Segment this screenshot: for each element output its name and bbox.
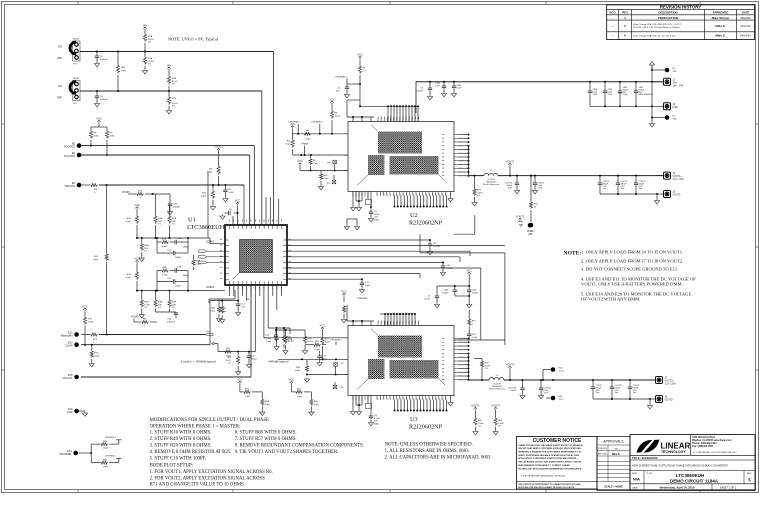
- power VCC R4a: [358, 56, 361, 60]
- resistor R3A: [155, 291, 157, 299]
- svg-text:PRODUCTION: PRODUCTION: [658, 16, 678, 20]
- capacitor C47: [248, 352, 250, 356]
- svg-text:Tant: Tant: [596, 391, 600, 394]
- svg-text:2. ONLY APPLY LOAD FROM J7 TO: 2. ONLY APPLY LOAD FROM J7 TO J8 ON VOUT…: [581, 259, 683, 264]
- wire j1 vertical: [651, 65, 653, 122]
- svg-text:400kHz typical: 400kHz typical: [268, 360, 288, 364]
- resistor R6x: [295, 390, 303, 393]
- svg-text:GND: GND: [673, 106, 679, 109]
- svg-text:1%: 1%: [172, 106, 175, 108]
- wire RUN1: [80, 51, 274, 53]
- svg-text:R7A: R7A: [148, 35, 153, 38]
- resistor R2B: [169, 204, 171, 215]
- svg-text:VOUT1: VOUT1: [471, 404, 480, 408]
- resistor R18: [283, 328, 285, 334]
- svg-text:VCC: VCC: [357, 53, 363, 57]
- terminal E13 CLKIN: [74, 342, 79, 347]
- svg-text:DRVENBL1: DRVENBL1: [311, 122, 323, 124]
- svg-text:1.5V / 20A: 1.5V / 20A: [673, 178, 685, 181]
- resistor R1A: [155, 194, 157, 215]
- svg-text:Fswitch = 500kHz typical: Fswitch = 500kHz typical: [180, 360, 216, 364]
- ground J5: [656, 194, 658, 199]
- resistor R3E: [169, 291, 171, 299]
- svg-text:R7E: R7E: [172, 78, 177, 80]
- svg-text:1000pF: 1000pF: [100, 59, 108, 61]
- capacitor COUT11: [540, 380, 542, 388]
- resistor R6: [217, 165, 220, 175]
- svg-text:TECHNOLOGY: TECHNOLOGY: [661, 450, 686, 454]
- svg-text:1%: 1%: [148, 64, 151, 66]
- resistor R5A: [141, 238, 143, 243]
- svg-text:LTC CONFIDENTIAL - FOR CUSTOME: LTC CONFIDENTIAL - FOR CUSTOMER USE ONLY: [692, 451, 737, 454]
- svg-text:—: —: [611, 35, 614, 38]
- svg-text:APPROVED: APPROVED: [713, 11, 729, 15]
- svg-text:1%: 1%: [498, 426, 501, 428]
- connector J7 VOUT2+: [656, 377, 663, 384]
- svg-text:COMP2: COMP2: [206, 287, 215, 289]
- resistor R55: [303, 335, 306, 344]
- svg-text:30.1K: 30.1K: [172, 81, 178, 83]
- capacitor CIN8: [589, 82, 591, 91]
- svg-text:30.1K: 30.1K: [148, 39, 154, 41]
- svg-text:1%: 1%: [485, 368, 488, 370]
- svg-text:PERFORMANCE OR RELIABILITY. C: PERFORMANCE OR RELIABILITY. CONTACT LINE…: [518, 464, 570, 467]
- resistor R27: [321, 336, 324, 345]
- resistor R56: [237, 352, 239, 355]
- wire U1 ISNS wires: [287, 239, 430, 241]
- svg-text:(Opt): (Opt): [295, 369, 300, 372]
- svg-text:APPROVALS: APPROVALS: [603, 440, 624, 444]
- svg-text:(Opt): (Opt): [103, 465, 108, 468]
- resistor R67: [468, 310, 470, 318]
- svg-text:0.25uF: 0.25uF: [446, 268, 453, 270]
- svg-text:PCB DES.: PCB DES.: [598, 448, 608, 450]
- wire E9 branch down: [106, 185, 108, 253]
- svg-text:4. REMOVE 0 OHM RESISTOR AT R2: 4. REMOVE 0 OHM RESISTOR AT R25.: [150, 450, 232, 455]
- svg-text:VOSP2: VOSP2: [131, 317, 139, 319]
- power VCC R8: [330, 101, 333, 105]
- svg-text:VERIFY PROPER AND RELIABLE OPE: VERIFY PROPER AND RELIABLE OPERATION IN …: [518, 454, 580, 457]
- power VCC comp2: [135, 260, 138, 264]
- svg-text:Value Change: R2A, R2B, R3E, R: Value Change: R2A, R2B, R3E, R28, R33, C…: [633, 23, 682, 26]
- svg-text:6.34K: 6.34K: [162, 274, 168, 276]
- svg-text:R7F: R7F: [172, 98, 177, 100]
- svg-text:1.00K: 1.00K: [498, 423, 504, 425]
- terminal E20 VO2-: [551, 396, 556, 401]
- svg-text:R2B: R2B: [172, 218, 177, 220]
- wire U1 bottom stubs: [229, 285, 231, 296]
- capacitor C18: [276, 328, 278, 338]
- capacitor CIN2: [443, 82, 445, 86]
- net VOUT2 lbl: [508, 366, 511, 370]
- svg-text:PGOOD1: PGOOD1: [64, 145, 76, 149]
- wire comp1 row: [137, 237, 210, 239]
- svg-text:100pF: 100pF: [175, 257, 182, 259]
- U3 bottom right ground: [450, 396, 452, 402]
- svg-text:LTC3860EUH: LTC3860EUH: [187, 224, 225, 231]
- svg-text:100K: 100K: [110, 135, 116, 137]
- svg-text:Tant: Tant: [603, 187, 607, 190]
- capacitor C6u3: [370, 396, 372, 417]
- power stage IC U3 R2J20602NP body: [348, 326, 454, 396]
- capacitor C3C: [157, 281, 173, 283]
- U2 pin labels: [377, 117, 380, 119]
- wire pgnd row: [210, 300, 238, 302]
- svg-text:C2A: C2A: [177, 237, 182, 240]
- svg-text:Mike S.: Mike S.: [715, 34, 726, 38]
- svg-text:2. ALL CAPACITORS ARE IN MICRO: 2. ALL CAPACITORS ARE IN MICROFARAD, 060…: [385, 455, 492, 460]
- capacitor C10r: [442, 262, 444, 266]
- resistor R64: [481, 368, 483, 371]
- capacitor C3o: [436, 286, 438, 296]
- svg-text:R5A: R5A: [144, 244, 149, 247]
- capacitor CIN3: [453, 82, 455, 86]
- svg-text:2. STUFF R49 WITH 0 OHMS.: 2. STUFF R49 WITH 0 OHMS.: [150, 437, 212, 442]
- wire PGOOD1: [81, 145, 254, 147]
- capacitor COUT2: [617, 176, 619, 183]
- svg-text:100pF: 100pF: [442, 292, 449, 294]
- resistor R7E: [167, 67, 170, 71]
- wire U2 top feed: [347, 116, 374, 118]
- U2 right pin dots: [468, 134, 470, 136]
- svg-text:VOUT1: VOUT1: [214, 145, 223, 149]
- wire TRKSS to U1: [243, 185, 245, 225]
- svg-text:20K: 20K: [158, 304, 162, 306]
- svg-text:1%: 1%: [478, 426, 481, 428]
- svg-text:VOS1-: VOS1-: [527, 231, 534, 233]
- svg-text:APPLICATION. COMPONENT SUBSTIT: APPLICATION. COMPONENT SUBSTITUTION AND …: [518, 457, 577, 460]
- capacitor C3M: [454, 286, 456, 290]
- svg-text:VOUT1: VOUT1: [506, 160, 515, 164]
- resistor R1E: [135, 215, 138, 224]
- terminal E9 TRK/SS1: [77, 183, 82, 188]
- svg-text:4.7uF: 4.7uF: [374, 418, 380, 420]
- capacitor COUT3: [635, 176, 637, 183]
- svg-text:C2B: C2B: [173, 204, 178, 206]
- resistor R7A: [143, 27, 146, 31]
- resistor R1Ao: [530, 176, 532, 201]
- svg-text:(Opt): (Opt): [365, 284, 370, 287]
- svg-text:R5B: R5B: [144, 302, 149, 304]
- connector J2 GND: [664, 103, 671, 110]
- svg-text:Tant: Tant: [621, 187, 625, 190]
- power VCC pullup node: [97, 120, 100, 124]
- svg-text:OFF: OFF: [57, 96, 63, 100]
- svg-text:R3B: R3B: [162, 267, 167, 269]
- capacitor C2A: [170, 241, 175, 243]
- junction dots above U3: [384, 313, 386, 315]
- resistor R62ph: [320, 171, 322, 174]
- wire U3 top feed: [347, 320, 374, 322]
- capacitor C4: [96, 91, 98, 96]
- svg-text:2. FOR VOUT2, APPLY EXCITATION: 2. FOR VOUT2, APPLY EXCITATION SIGNAL AC…: [150, 476, 265, 481]
- svg-text:SIZE: SIZE: [632, 473, 637, 475]
- svg-text:DATE: DATE: [742, 11, 750, 15]
- svg-text:DRVENBL: DRVENBL: [59, 452, 72, 456]
- terminal E3 VOUT1S: [529, 223, 534, 228]
- resistor R7G: [136, 192, 144, 195]
- power VCC comp1: [135, 207, 138, 211]
- svg-text:0.1uF: 0.1uF: [472, 337, 478, 339]
- svg-text:4.7uF: 4.7uF: [374, 214, 380, 216]
- svg-text:2.67K: 2.67K: [485, 365, 491, 367]
- svg-text:C3X: C3X: [167, 319, 172, 321]
- wire comp2 row: [137, 290, 210, 292]
- svg-text:(Opt): (Opt): [266, 340, 271, 343]
- testpoint TP3: [333, 160, 337, 164]
- svg-text:(Opt): (Opt): [265, 403, 270, 406]
- small box U2 fb: [366, 200, 372, 205]
- svg-text:R2J20602NP: R2J20602NP: [409, 424, 443, 431]
- svg-text:C:\PROJACAD\CAPTURE\BulkWork_R: C:\PROJACAD\CAPTURE\BulkWork_REV6.DSN: [521, 475, 565, 478]
- connector J8 VOUT2-: [656, 396, 663, 403]
- svg-text:CLKOUT: CLKOUT: [62, 376, 73, 380]
- customer notice box: [517, 437, 598, 490]
- svg-text:VCC: VCC: [297, 159, 303, 163]
- svg-text:LINEAR TECHNOLOGY HAS MADE A B: LINEAR TECHNOLOGY HAS MADE A BEST EFFORT…: [518, 444, 583, 447]
- svg-text:VOUT2: VOUT2: [491, 404, 500, 408]
- svg-text:VOUT1-: VOUT1-: [673, 194, 682, 197]
- svg-text:1%: 1%: [144, 307, 147, 309]
- resistor R74: [81, 334, 90, 336]
- wire VIN rail: [416, 81, 663, 83]
- svg-text:NOTE: UNLESS OTHERWISE SPECIFI: NOTE: UNLESS OTHERWISE SPECIFIED.: [385, 443, 473, 448]
- wire VIN gnd rail: [590, 105, 652, 107]
- resistor R7ph: [310, 155, 312, 158]
- capacitor C3N: [468, 286, 470, 290]
- svg-text:1. ALL RESISTORS ARE IN OHMS,: 1. ALL RESISTORS ARE IN OHMS, 0603.: [385, 449, 470, 454]
- svg-text:R1A: R1A: [158, 217, 163, 220]
- svg-text:51.1K: 51.1K: [308, 341, 314, 343]
- wire PGOOD2: [81, 154, 250, 156]
- svg-text:1%: 1%: [477, 195, 480, 197]
- svg-text:SHEET 1 OF 1: SHEET 1 OF 1: [720, 486, 737, 489]
- approvals box: [597, 437, 630, 491]
- U3 bottom-left grounds: [352, 396, 354, 411]
- svg-text:CUSTOMER NOTICE: CUSTOMER NOTICE: [533, 438, 582, 444]
- resistor R40: [212, 185, 214, 190]
- svg-text:SUPPLIED FOR USE WITH LINEAR T: SUPPLIED FOR USE WITH LINEAR TECHNOLOGY …: [518, 486, 575, 489]
- resistor R82: [90, 444, 92, 453]
- svg-text:Mike Shriver: Mike Shriver: [712, 16, 731, 20]
- svg-text:VCC: VCC: [237, 378, 243, 382]
- svg-text:PGOOD2: PGOOD2: [64, 154, 76, 158]
- svg-text:0.1uF: 0.1uF: [424, 298, 430, 300]
- wire VOUT1 return: [600, 193, 657, 195]
- wire pin8 drop: [254, 285, 256, 352]
- svg-text:6.34K: 6.34K: [162, 246, 168, 248]
- wire RUN2: [80, 90, 262, 92]
- terminal E6 PGOOD2: [77, 153, 82, 158]
- svg-text:C2C: C2C: [167, 250, 172, 252]
- svg-text:REV.: REV.: [747, 473, 752, 475]
- svg-text:ON: ON: [58, 84, 62, 88]
- svg-text:DESCRIPTION: DESCRIPTION: [658, 11, 677, 15]
- terminal E11: [528, 223, 533, 228]
- svg-text:1000pF: 1000pF: [173, 206, 181, 208]
- resistor R60: [117, 52, 119, 65]
- small box U3 fb: [366, 404, 372, 409]
- svg-text:16V: 16V: [374, 217, 378, 219]
- capacitor C3X: [156, 311, 177, 313]
- svg-text:(Opt): (Opt): [103, 446, 108, 449]
- svg-text:(Opt): (Opt): [126, 276, 131, 279]
- capacitor CIN4: [604, 82, 606, 91]
- svg-text:R7G: R7G: [138, 191, 143, 193]
- svg-text:VO2-: VO2-: [559, 399, 564, 401]
- wire clkout: [81, 376, 251, 378]
- junction dots above U2: [387, 105, 389, 107]
- svg-text:VOUT1: VOUT1: [516, 215, 525, 219]
- capacitor C3B: [170, 270, 175, 272]
- svg-text:HOWEVER, IT REMAINS THE CUSTOM: HOWEVER, IT REMAINS THE CUSTOMER'S RESPO…: [518, 451, 582, 454]
- svg-text:100K: 100K: [94, 135, 100, 137]
- wire SMOD: [300, 170, 348, 172]
- svg-text:THIS CIRCUIT IS PROPRIETARY TO: THIS CIRCUIT IS PROPRIETARY TO LINEAR TE…: [518, 483, 581, 486]
- svg-text:R2B: R2B: [162, 239, 167, 241]
- svg-text:VCC: VCC: [341, 290, 347, 294]
- svg-text:VOUT1. ONLY USE A BATTERY POWE: VOUT1. ONLY USE A BATTERY POWERED DMM.: [581, 282, 683, 287]
- power VCC r71: [83, 308, 86, 312]
- svg-text:10.0K: 10.0K: [172, 103, 178, 105]
- resistor R83: [90, 453, 92, 463]
- resistor R5x: [310, 392, 312, 399]
- svg-text:(Opt): (Opt): [623, 93, 628, 96]
- capacitor C11: [361, 279, 363, 283]
- capacitor C14: [237, 301, 239, 304]
- svg-text:1%: 1%: [172, 84, 175, 86]
- wire cs loop2: [420, 252, 505, 254]
- wire cs loop1: [454, 233, 475, 235]
- svg-text:DEMO CIRCUIT 1184A: DEMO CIRCUIT 1184A: [670, 478, 719, 483]
- svg-text:COUT22, C3E & C3X. (P3 with 40: COUT22, C3E & C3X. (P3 with 400kHz to 60…: [633, 26, 680, 29]
- svg-text:RUN2: RUN2: [73, 78, 80, 80]
- svg-text:R3A: R3A: [158, 301, 163, 304]
- svg-text:VCC: VCC: [82, 305, 88, 309]
- U3 right pin dots: [468, 338, 470, 340]
- svg-text:100uF: 100uF: [510, 390, 516, 392]
- svg-text:VCC: VCC: [134, 203, 140, 207]
- svg-text:(Opt): (Opt): [306, 138, 311, 141]
- svg-text:U2: U2: [410, 212, 418, 219]
- svg-text:—: —: [611, 25, 614, 28]
- svg-text:Tant: Tant: [639, 187, 643, 190]
- svg-text:1%: 1%: [144, 251, 147, 253]
- resistor R7F: [168, 91, 170, 96]
- svg-text:1%: 1%: [158, 307, 161, 309]
- ground top j1: [651, 65, 653, 70]
- svg-text:VIN: VIN: [143, 24, 147, 28]
- svg-text:Mode/pllin: Mode/pllin: [61, 334, 73, 338]
- svg-text:(Opt): (Opt): [297, 395, 302, 398]
- svg-text:R1E: R1E: [127, 218, 132, 220]
- wire freq row: [214, 343, 218, 345]
- resistor R57: [313, 343, 321, 346]
- svg-text:C3B: C3B: [177, 266, 182, 268]
- svg-text:0805: 0805: [374, 423, 380, 425]
- testpoint TP4: [332, 180, 336, 184]
- terminal E14 VO2+: [551, 367, 556, 372]
- resistor R4B opt: [193, 255, 195, 259]
- resistor R59: [243, 390, 251, 393]
- svg-text:(Opt): (Opt): [126, 220, 131, 223]
- svg-text:3. DO NOT CONNECT SCOPE GROUND: 3. DO NOT CONNECT SCOPE GROUND TO E11.: [581, 267, 678, 272]
- testpoint TP6: [333, 385, 337, 389]
- net VOUT1 lbl: [508, 163, 511, 167]
- svg-text:RUN1: RUN1: [73, 39, 80, 41]
- capacitor C1: [96, 52, 98, 57]
- svg-text:(Opt): (Opt): [121, 69, 126, 72]
- svg-text:2.67K: 2.67K: [477, 192, 483, 194]
- svg-text:(Opt): (Opt): [245, 395, 250, 398]
- svg-text:N/A: N/A: [633, 477, 640, 482]
- capacitor CIN5: [635, 82, 637, 91]
- svg-text:DRVENBL2: DRVENBL2: [335, 77, 347, 79]
- svg-text:VCC: VCC: [289, 378, 295, 382]
- resistor R71: [83, 316, 86, 325]
- svg-text:DRVENBL2: DRVENBL2: [105, 437, 116, 439]
- terminal E12 MODE/PLLIN: [74, 332, 79, 337]
- capacitor COUT1: [599, 176, 601, 183]
- terminal E15 CLKOUT: [74, 375, 79, 380]
- svg-text:OPERATION WHERE PHASE 1 = MAST: OPERATION WHERE PHASE 1 = MASTER:: [150, 424, 241, 429]
- wire sense join: [455, 295, 469, 297]
- svg-text:7. STUFF R57 WITH 0 OHMS.: 7. STUFF R57 WITH 0 OHMS.: [235, 437, 297, 442]
- resistor R61o: [474, 176, 476, 188]
- svg-text:5. STUFF C16 WITH 100PF.: 5. STUFF C16 WITH 100PF.: [150, 456, 207, 461]
- wire left drop: [209, 301, 211, 345]
- power VCC sense: [468, 272, 471, 276]
- op IC U1 LTC3860EUH body: [225, 225, 287, 285]
- svg-text:Wednesday, April 14, 2010: Wednesday, April 14, 2010: [660, 486, 695, 490]
- svg-text:R71 AND CHANGE ITS VALUE TO 10: R71 AND CHANGE ITS VALUE TO 10 OHMS.: [150, 482, 245, 487]
- resistor R7Bb opt: [218, 299, 220, 306]
- svg-text:SCALE = NONE: SCALE = NONE: [604, 485, 623, 488]
- ground bottom j2: [649, 122, 654, 127]
- svg-text:APP ENG.: APP ENG.: [598, 453, 608, 456]
- testpoint TP5: [334, 363, 338, 367]
- svg-text:(Opt): (Opt): [313, 162, 318, 165]
- capacitor C8r: [429, 240, 431, 244]
- capacitor COUT5: [534, 176, 536, 183]
- svg-text:REVISION HISTORY: REVISION HISTORY: [660, 5, 702, 10]
- terminal E1 VIN: [665, 68, 670, 73]
- svg-text:-: -: [612, 16, 613, 20]
- svg-text:TITLE: SCHEMATIC: TITLE: SCHEMATIC: [632, 456, 658, 460]
- svg-text:HIGH CURRENT DUAL OUTPUT/DUAL: HIGH CURRENT DUAL OUTPUT/DUAL PHASE SYNC…: [632, 465, 728, 468]
- svg-text:1000pF: 1000pF: [100, 99, 108, 101]
- resistor R5Ab: [261, 392, 263, 399]
- svg-text:VOS1-: VOS1-: [518, 222, 524, 224]
- svg-text:Fax: (408)434-0507: Fax: (408)434-0507: [692, 445, 714, 448]
- resistor R6en: [303, 132, 311, 135]
- svg-text:C2M: C2M: [472, 290, 477, 292]
- resistor R68: [494, 407, 497, 411]
- capacitor C16: [274, 335, 278, 337]
- capacitor C8a: [224, 185, 226, 190]
- svg-text:(Opt): (Opt): [196, 262, 201, 265]
- svg-text:VCC: VCC: [466, 269, 472, 273]
- capacitor C2C: [156, 242, 158, 253]
- svg-text:CLKIN: CLKIN: [65, 344, 73, 348]
- U2 bottom pin dots: [394, 206, 396, 208]
- svg-text:(Opt): (Opt): [93, 258, 98, 261]
- capacitor CIN6: [619, 82, 621, 91]
- U2 bottom right ground: [450, 192, 452, 198]
- svg-text:10.0K: 10.0K: [335, 115, 341, 117]
- U3 bottom pin dots: [394, 410, 396, 412]
- svg-text:1. STUFF R16 WITH 0 OHMS.: 1. STUFF R16 WITH 0 OHMS.: [150, 431, 212, 436]
